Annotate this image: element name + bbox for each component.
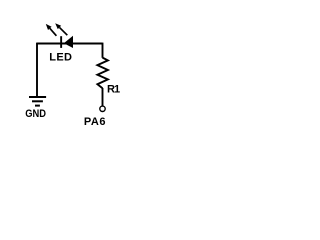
wire right vertical upper [102, 43, 104, 58]
LED emission arrow 1 [46, 24, 57, 36]
svg-text:GND: GND [25, 108, 46, 120]
wire right vertical lower [102, 88, 104, 106]
LED D1 cathode bar [60, 36, 62, 48]
LED emission arrow 2 [55, 23, 67, 35]
LED D1 triangle [64, 36, 73, 48]
pin terminal circle PA6 [100, 106, 105, 111]
svg-text:PA6: PA6 [84, 116, 106, 128]
wire top horizontal [37, 43, 103, 45]
resistor R1 zigzag [97, 58, 108, 89]
wire left vertical [36, 43, 38, 97]
ground GND symbol bar 2 [32, 100, 43, 102]
ground GND symbol bar 1 [29, 96, 46, 98]
svg-text:R1: R1 [107, 84, 120, 96]
svg-text:LED: LED [49, 51, 72, 63]
ground GND symbol bar 3 [35, 105, 40, 107]
